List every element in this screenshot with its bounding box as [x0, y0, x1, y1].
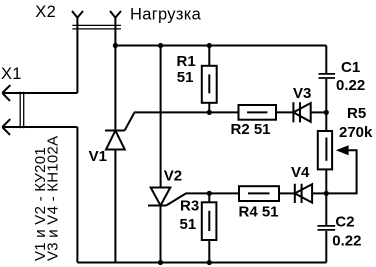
- dinistor V3: [293, 102, 310, 122]
- capacitor C1 plates: [319, 74, 336, 78]
- wire R3 bottom stub: [208, 240, 210, 263]
- wire V3 to right rail: [311, 111, 327, 113]
- resistor R1: [202, 66, 217, 103]
- wire V2 cathode drop: [160, 206, 162, 263]
- wire C2 to bottom rail: [325, 231, 327, 263]
- svg-text:V2: V2: [164, 167, 182, 184]
- thyristor V2 cathode bar: [148, 205, 166, 207]
- thyristor V1 triangle: [106, 131, 125, 150]
- resistor R4: [239, 186, 279, 201]
- svg-text:51: 51: [177, 69, 194, 86]
- resistor R5: [318, 131, 332, 169]
- wire R2 to V3: [276, 111, 293, 113]
- resistor R5 wiper arrow head: [336, 145, 349, 155]
- thyristor V2 triangle: [151, 188, 171, 206]
- connector X2 left contact (fork): [72, 11, 83, 93]
- capacitor C2 plates: [318, 226, 336, 230]
- svg-text:0.22: 0.22: [336, 77, 365, 94]
- svg-text:V4: V4: [291, 164, 310, 181]
- connector X1 lower contact (arrow): [2, 119, 77, 135]
- junction node top rail / R1: [207, 43, 212, 48]
- dinistor V4: [295, 184, 312, 203]
- junction node top rail / V2: [158, 43, 163, 48]
- svg-text:C1: C1: [341, 59, 360, 76]
- wire R3 top stub: [208, 193, 210, 202]
- junction node bottom rail / V2: [158, 260, 163, 265]
- thyristor V2 gate wire: [166, 193, 239, 205]
- junction node V4 / right rail / wiper: [324, 191, 329, 196]
- svg-text:V3: V3: [293, 85, 311, 102]
- svg-text:R5: R5: [347, 105, 366, 122]
- junction node R1 / gate line: [207, 110, 212, 115]
- wire V1 anode drop: [114, 150, 116, 263]
- thyristor V1 cathode bar: [105, 130, 125, 132]
- svg-text:X1: X1: [1, 65, 22, 83]
- resistor R2: [239, 105, 277, 120]
- connector X2 mechanical link: [72, 25, 121, 29]
- svg-text:V3 и V4 - КН102А: V3 и V4 - КН102А: [45, 136, 62, 261]
- svg-text:X2: X2: [35, 3, 56, 21]
- resistor R5 wiper wire: [326, 150, 356, 193]
- wire V4 to right rail: [312, 192, 326, 194]
- wire R1 bottom stub: [208, 103, 210, 113]
- wire R1 top stub: [208, 46, 210, 66]
- svg-text:51: 51: [180, 216, 197, 233]
- wire R4 to V4: [279, 192, 295, 194]
- svg-text:R1: R1: [177, 53, 196, 70]
- wire bottom rail: [77, 262, 326, 264]
- junction node bottom rail / R3: [207, 260, 212, 265]
- wire R5 to node: [325, 169, 327, 225]
- svg-text:R2 51: R2 51: [231, 121, 271, 138]
- wire V2 anode drop: [160, 46, 162, 188]
- svg-text:V1: V1: [89, 148, 107, 165]
- thyristor V1 gate wire: [125, 112, 239, 130]
- junction node R3 / gate line: [207, 191, 212, 196]
- junction node top rail / X2: [113, 43, 118, 48]
- junction node V3 / right rail: [324, 110, 329, 115]
- connector X1 upper contact (arrow): [2, 85, 77, 101]
- wire left drop from X1 lower to bottom rail: [76, 127, 78, 263]
- wire right rail top to C1: [325, 46, 327, 74]
- svg-text:0.22: 0.22: [332, 232, 361, 249]
- wire C1 to node: [325, 79, 327, 131]
- svg-text:C2: C2: [335, 213, 354, 230]
- svg-text:R4 51: R4 51: [239, 204, 279, 221]
- svg-text:Нагрузка: Нагрузка: [130, 6, 202, 24]
- resistor R3: [202, 202, 217, 240]
- svg-text:270k: 270k: [339, 124, 373, 141]
- connector X1 mechanical link: [20, 92, 24, 128]
- wire top rail: [115, 45, 326, 47]
- connector X2 right contact (fork): [110, 11, 121, 131]
- svg-text:R3: R3: [180, 197, 199, 214]
